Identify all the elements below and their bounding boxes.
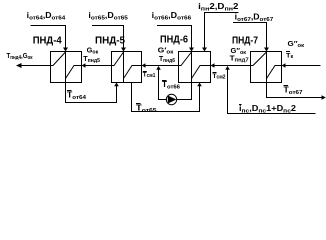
heater ПНД-7 steam vertical <box>266 52 268 83</box>
svg-text:Тот64: Тот64 <box>67 91 87 101</box>
svg-text:Gок: Gок <box>87 46 99 56</box>
overbar Тк <box>286 51 290 53</box>
overbar Тот67 <box>284 85 289 87</box>
overbar Тсм1 <box>143 71 147 73</box>
arrowhead drain into ПНД-6 bottom <box>197 83 202 87</box>
arrowhead drain into ПНД-5 bottom <box>114 83 119 87</box>
heater ПНД-6 steam vertical <box>191 52 193 83</box>
arrowhead iпн2 into ПНД-6 <box>202 48 207 52</box>
pump ДН triangle <box>168 96 177 104</box>
heater ПНД-5 box <box>112 52 142 83</box>
heater ПНД-4 right diagonal and tail <box>66 66 82 79</box>
arrowhead condensate into ПНД-6 <box>211 63 215 68</box>
heater ПНД-4 box <box>51 52 82 83</box>
arrowhead condensate into ПНД-5 <box>142 63 146 68</box>
svg-text:iот67,Dот67: iот67,Dот67 <box>235 13 274 23</box>
svg-text:iпн2,Dпн2: iпн2,Dпн2 <box>198 2 239 12</box>
overbar Тот65 <box>136 103 141 105</box>
wire condensate ПНД-7 to ПНД-6 <box>212 65 251 67</box>
svg-text:ПНД-7: ПНД-7 <box>232 35 258 47</box>
svg-text:Тот66: Тот66 <box>162 80 181 90</box>
heater ПНД-7 left tail and diagonal <box>251 52 267 66</box>
heater ПНД-4 steam vertical <box>65 52 67 83</box>
arrowhead steam into ПНД-5 <box>121 48 126 52</box>
wire drain ПНД-7 outlet <box>267 83 323 98</box>
arrowhead mixing point 1 <box>156 66 161 70</box>
svg-text:G″ок: G″ок <box>288 39 305 49</box>
svg-text:iпс,Dпс1+Dпс2: iпс,Dпс1+Dпс2 <box>239 104 297 114</box>
svg-text:Тот67: Тот67 <box>284 86 303 96</box>
overbar iпс <box>239 104 242 106</box>
svg-text:iот65,Dот65: iот65,Dот65 <box>88 11 128 21</box>
arrowhead steam into ПНД-7 <box>264 48 269 52</box>
arrowhead steam into ПНД-4 <box>63 48 68 52</box>
arrowhead steam into ПНД-6 <box>189 48 194 52</box>
wire drain ПНД-6 to pump <box>177 83 192 100</box>
svg-text:ПНД-6: ПНД-6 <box>160 34 188 46</box>
wire extraction 66 into ПНД-6 <box>157 26 192 51</box>
heater ПНД-5 left tail and diagonal <box>112 52 124 66</box>
wire condensate outlet from ПНД-4 <box>18 65 51 67</box>
heater ПНД-6 box <box>179 52 211 83</box>
svg-text:ПНД-5: ПНД-5 <box>95 35 125 47</box>
heater ПНД-5 steam vertical <box>123 52 125 83</box>
wire gland heater drains iпс to mixing point 2 <box>228 67 316 114</box>
arrowhead condensate into ПНД-7 <box>282 63 286 68</box>
svg-text:ПНД-4: ПНД-4 <box>33 35 62 47</box>
pump ДН circle <box>166 94 176 104</box>
svg-text:Тот65: Тот65 <box>136 104 158 114</box>
overbar Тот66 <box>162 80 167 82</box>
heater ПНД-6 left tail and diagonal <box>179 52 192 66</box>
wire condensate ПНД-5 to ПНД-4 <box>83 65 112 67</box>
wire pump discharge to mixing point 1 <box>159 67 167 100</box>
wire extraction 65 into ПНД-5 <box>92 26 124 51</box>
svg-text:Тк: Тк <box>286 53 294 61</box>
arrowhead condensate outlet <box>16 63 22 68</box>
heater ПНД-7 box <box>251 52 282 83</box>
arrowhead condensate into ПНД-4 <box>82 63 86 68</box>
heater ПНД-4 left tail and diagonal <box>51 52 66 66</box>
wire iпн2 into ПНД-6 <box>205 13 239 51</box>
heater ПНД-6 right diagonal and tail <box>192 66 211 79</box>
svg-text:iот66,Dот66: iот66,Dот66 <box>152 11 192 21</box>
arrowhead drain ПНД-7 outlet <box>322 95 326 100</box>
wire drain ПНД-5 to ПНД-6 <box>132 83 200 112</box>
heater ПНД-5 right diagonal and tail <box>124 66 142 79</box>
wire drain ПНД-4 to ПНД-5 <box>66 83 117 103</box>
overbar Тсм2 <box>213 72 217 74</box>
svg-text:Тсм2: Тсм2 <box>213 73 226 80</box>
overbar Тот64 <box>67 90 72 92</box>
wire condensate ПНД-6 to ПНД-5 <box>143 65 179 67</box>
wire extraction 67 into ПНД-7 <box>233 23 267 51</box>
wire extraction 64 into ПНД-4 <box>31 26 66 51</box>
svg-text:iот64,Dот64: iот64,Dот64 <box>27 11 66 21</box>
wire condensate inlet to ПНД-7 <box>283 65 321 67</box>
heater ПНД-7 right diagonal and tail <box>267 66 282 79</box>
svg-text:Тсм1: Тсм1 <box>143 72 156 79</box>
svg-text:Тпнд4,Gок: Тпнд4,Gок <box>7 51 33 61</box>
arrowhead mixing point 2 <box>225 66 230 70</box>
